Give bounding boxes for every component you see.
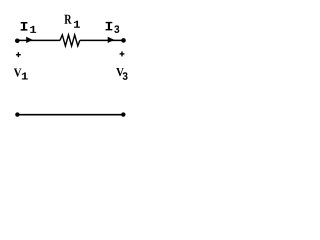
wire bottom: [17, 114, 123, 116]
node terminal dot top-right: [121, 38, 126, 43]
node terminal dot bottom-right: [121, 112, 125, 116]
wire top-right segment: [80, 39, 124, 41]
label I1: [21, 22, 36, 33]
plus sign right: [120, 51, 125, 56]
node terminal dot top-left: [15, 39, 20, 44]
plus sign left: [16, 52, 21, 57]
current arrow I1: [26, 37, 33, 43]
wire top-left segment: [17, 39, 60, 41]
node terminal dot bottom-left: [15, 112, 19, 116]
label I3: [106, 22, 120, 33]
label R1: [64, 15, 80, 28]
label V3: [116, 68, 127, 80]
label V1: [14, 69, 28, 80]
resistor R1: [60, 35, 80, 46]
current arrow I3: [108, 37, 115, 43]
